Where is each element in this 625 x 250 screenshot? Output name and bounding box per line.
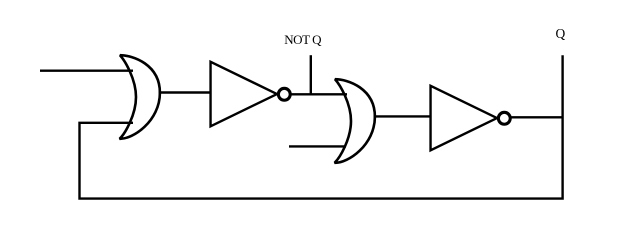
inverter U2 output bubble (498, 112, 510, 124)
wire: U1 output to OR gate G2 top input (292, 93, 348, 95)
inverter U1 (211, 62, 277, 127)
wire: U2 output to node Q rail (512, 116, 563, 118)
inverter U2 (431, 86, 497, 151)
wire: G2 lower input stub (289, 145, 346, 147)
wire: NOT Q stub (310, 55, 312, 94)
svg-text:NOT Q: NOT Q (284, 32, 322, 47)
svg-text:Q: Q (556, 26, 566, 41)
inverter U1 output bubble (278, 88, 290, 100)
wire: G1 lower input, feedback loop and right rail to node Q (80, 55, 563, 198)
wire: G2 output to inverter U2 (374, 115, 432, 117)
wire: G1 output to inverter U1 (159, 91, 212, 93)
or-gate G1 (120, 55, 160, 139)
or-gate G2 (335, 79, 375, 163)
wire: top input into OR gate G1 (40, 69, 133, 71)
